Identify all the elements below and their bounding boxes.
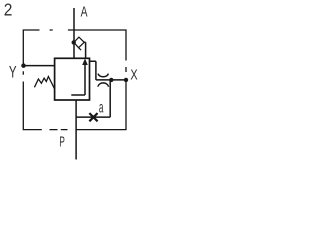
main valve body	[55, 58, 90, 100]
pilot line X down along enclosure right edge to bottom edge	[76, 80, 126, 130]
enclosure top edge right part and right edge (dash-dot)	[68, 30, 126, 72]
port line A	[73, 8, 75, 58]
flow arrowhead	[82, 59, 88, 66]
svg-text:X: X	[130, 67, 138, 83]
throttle (orifice)	[98, 74, 109, 87]
junction dot at throttle outlet	[109, 78, 113, 82]
flow path inside valve	[71, 64, 85, 96]
svg-text:2: 2	[4, 0, 13, 20]
plugged connection (cross)	[89, 113, 97, 121]
junction dot on A line	[72, 40, 76, 44]
enclosure top-left corner and top edge (dash-dot)	[23, 30, 52, 66]
pilot line from check valve down into valve	[84, 42, 85, 58]
port line P	[75, 100, 77, 160]
svg-text:A: A	[81, 4, 88, 20]
pilot branch line down to plugged port	[76, 80, 110, 117]
enclosure left edge lower part and bottom-left corner (dash-dot)	[23, 71, 42, 129]
drain line Y to valve body	[24, 65, 55, 67]
svg-text:a: a	[99, 99, 104, 116]
svg-text:P: P	[59, 133, 65, 150]
junction dot Y	[21, 63, 26, 68]
pilot tap line from valve right side to throttle and port X	[90, 61, 127, 80]
enclosure bottom edge dashes (dash-dot)	[50, 129, 68, 131]
spring	[34, 77, 54, 89]
junction dot X	[124, 78, 128, 82]
svg-text:Y: Y	[9, 63, 17, 82]
check valve (diamond with tail)	[74, 37, 84, 50]
